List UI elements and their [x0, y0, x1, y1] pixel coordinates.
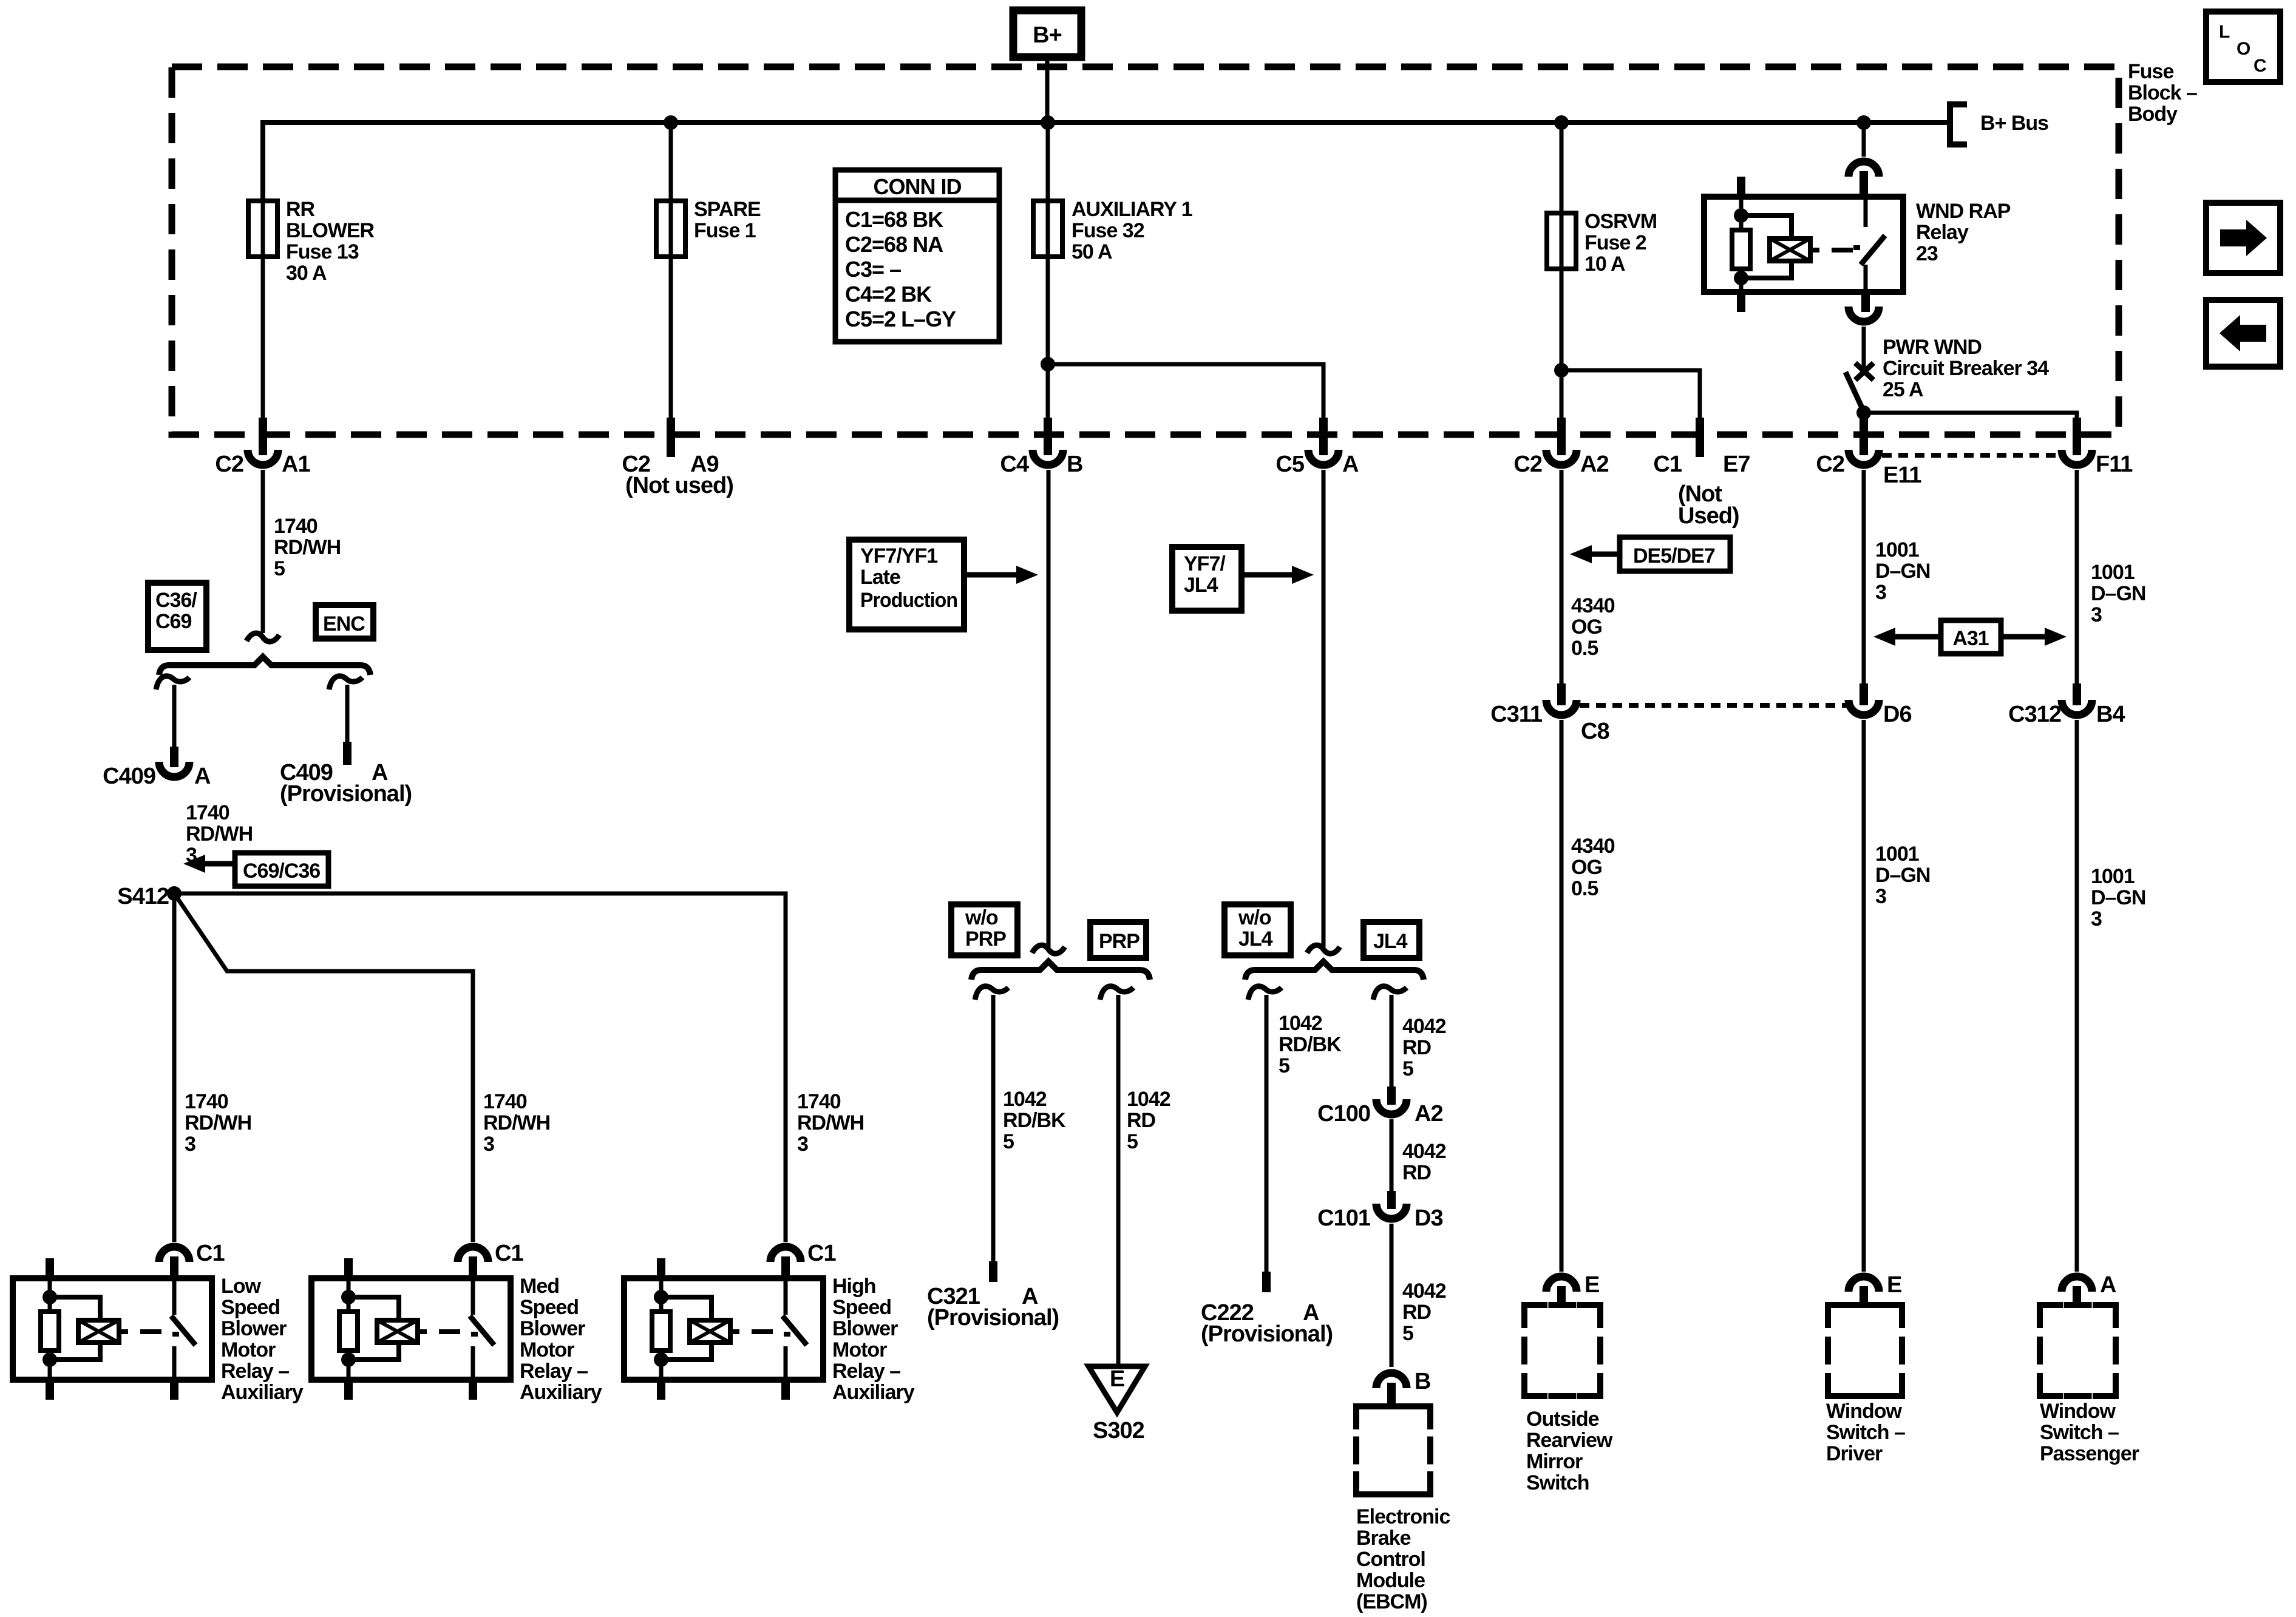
svg-text:S302: S302: [1093, 1418, 1144, 1443]
splice brace: [159, 657, 370, 675]
arrow A31 left: [1894, 634, 1941, 640]
svg-text:1042: 1042: [1127, 1088, 1170, 1111]
svg-text:Med: Med: [520, 1275, 559, 1298]
splice brace PRP: [971, 961, 1150, 980]
branch pigtail right (provisional): [329, 676, 362, 690]
svg-text:Production: Production: [860, 589, 957, 612]
node: bus junction at WND RAP relay: [1856, 115, 1871, 130]
wire end pigtail C5 branch: [1307, 945, 1340, 954]
node: bus junction at OSRVM: [1554, 115, 1569, 130]
svg-text:PRP: PRP: [1099, 930, 1140, 953]
C36/C69 option box: [148, 583, 206, 650]
svg-text:WND RAP: WND RAP: [1916, 200, 2011, 223]
svg-text:4042: 4042: [1402, 1015, 1446, 1038]
B+ Bus bracket terminal: [1950, 104, 1967, 144]
connector C2/E11 pin stub: [1860, 418, 1868, 455]
wire S412 to high relay: [174, 893, 786, 1242]
wire C312 to window switch passenger: [2075, 720, 2079, 1272]
connector C409/A cup: [159, 762, 189, 777]
svg-text:PRP: PRP: [965, 927, 1006, 951]
svg-text:C312: C312: [2008, 702, 2061, 727]
svg-text:RD/WH: RD/WH: [274, 536, 341, 559]
relay K23 input pin stub: [1860, 171, 1868, 197]
power feed B+ box: [1013, 10, 1081, 57]
connector C409/A provisional stub: [343, 742, 352, 765]
node: bus junction at B+/AUX: [1041, 115, 1055, 130]
wire C101 to EBCM: [1390, 1224, 1394, 1367]
svg-text:Control: Control: [1356, 1548, 1425, 1571]
svg-text:C4=2 BK: C4=2 BK: [845, 282, 932, 307]
wire S412 to med relay (diagonal): [174, 893, 473, 1242]
svg-text:D–GN: D–GN: [1875, 864, 1930, 887]
svg-text:Auxiliary: Auxiliary: [221, 1381, 304, 1404]
wire bus to WND RAP relay connector: [1862, 123, 1866, 157]
svg-text:C409: C409: [103, 764, 155, 789]
svg-text:C2: C2: [215, 452, 243, 477]
svg-text:1042: 1042: [1003, 1088, 1047, 1111]
svg-text:YF7/: YF7/: [1184, 552, 1226, 575]
connector F11 pin stub: [2073, 418, 2081, 455]
svg-text:Low: Low: [221, 1275, 262, 1298]
wire relay to circuit breaker: [1862, 327, 1866, 368]
connector B arc (EBCM): [1376, 1373, 1407, 1388]
svg-text:Fuse 13: Fuse 13: [286, 240, 359, 263]
ENC option box: [316, 605, 373, 639]
svg-text:A2: A2: [1415, 1101, 1443, 1127]
svg-text:C1: C1: [495, 1241, 523, 1266]
node: breaker output junction: [1856, 405, 1871, 420]
connector C4/B pin stub: [1044, 418, 1052, 455]
svg-text:RD: RD: [1402, 1036, 1432, 1059]
svg-text:Outside: Outside: [1526, 1408, 1599, 1431]
connector C2/A2 pin stub: [1557, 418, 1566, 455]
svg-text:RD/BK: RD/BK: [1003, 1109, 1066, 1132]
svg-text:D6: D6: [1883, 702, 1912, 727]
svg-text:RD: RD: [1402, 1301, 1432, 1324]
wire to C321: [991, 995, 996, 1263]
svg-text:Blower: Blower: [221, 1317, 287, 1340]
wire end pigtail: [246, 633, 279, 642]
svg-text:w/o: w/o: [965, 906, 998, 929]
svg-text:10 A: 10 A: [1584, 253, 1625, 276]
wire breaker junction to F11 drop: [1864, 413, 2077, 419]
branch pigtail left: [156, 676, 189, 690]
svg-text:Auxiliary: Auxiliary: [832, 1381, 915, 1404]
fuse F32 AUXILIARY 1 50A: [1046, 123, 1050, 201]
arrow to wire from C69/C36: [204, 861, 235, 867]
svg-text:CONN ID: CONN ID: [874, 174, 962, 199]
connector C1/E7 pin stub (not used): [1696, 418, 1704, 457]
connector C311/C8 cup: [1546, 700, 1577, 715]
svg-text:D–GN: D–GN: [2091, 886, 2145, 909]
svg-text:1740: 1740: [274, 515, 318, 538]
connector A pin stub (passenger): [2073, 1286, 2081, 1305]
connector B pin stub: [1387, 1383, 1396, 1406]
svg-text:4340: 4340: [1571, 594, 1615, 617]
svg-text:Blower: Blower: [832, 1317, 898, 1340]
svg-text:Brake: Brake: [1356, 1527, 1411, 1550]
svg-text:RD/WH: RD/WH: [797, 1111, 864, 1134]
svg-text:RD/WH: RD/WH: [186, 822, 253, 846]
connector D6 cup: [1849, 700, 1879, 715]
svg-text:E: E: [1110, 1366, 1124, 1392]
connector C2/A1 pin stub: [259, 418, 267, 455]
svg-text:Switch –: Switch –: [2040, 1421, 2119, 1444]
svg-text:Switch: Switch: [1526, 1471, 1589, 1494]
node: osrvm junction: [1554, 363, 1569, 378]
wire C2/E11 to D6: [1862, 470, 1866, 685]
svg-text:Module: Module: [1356, 1569, 1425, 1592]
svg-text:3: 3: [1875, 581, 1886, 604]
connector C1 pin stub (Med relay): [469, 1256, 477, 1278]
svg-text:L: L: [2219, 22, 2230, 42]
svg-text:25 A: 25 A: [1883, 378, 1923, 401]
branch pigtail w/o JL4: [1248, 986, 1282, 1000]
svg-text:B+ Bus: B+ Bus: [1980, 112, 2048, 135]
B+ bus wire: [263, 123, 1950, 201]
svg-text:A2: A2: [1580, 452, 1609, 477]
svg-text:3: 3: [483, 1133, 494, 1156]
svg-text:C8: C8: [1581, 719, 1609, 744]
svg-text:3: 3: [1875, 885, 1886, 908]
wire end pigtail C4 branch: [1032, 945, 1065, 954]
wire aux junction to C5 drop: [1048, 364, 1323, 419]
connector C1 arc (High relay): [770, 1247, 801, 1262]
wire branch to C409: [172, 685, 177, 748]
connector C1 arc (Med relay): [458, 1247, 488, 1262]
relay K23 input connector arc: [1849, 161, 1879, 177]
wire fuse32 down to node: [1046, 257, 1050, 364]
connector C101/D3 pin stub: [1387, 1191, 1396, 1209]
svg-text:Passenger: Passenger: [2040, 1442, 2139, 1465]
svg-text:Fuse 2: Fuse 2: [1584, 231, 1646, 254]
connector C321/A provisional stub: [989, 1261, 997, 1282]
svg-text:Motor: Motor: [520, 1338, 574, 1361]
svg-text:RD: RD: [1127, 1109, 1156, 1132]
svg-text:Relay –: Relay –: [520, 1360, 588, 1383]
wire: dotted link E11 to F11: [1882, 453, 2059, 458]
wire osrvm junction to E7 stub: [1561, 370, 1700, 419]
wire osrvm junction to C2/A2 connector: [1560, 370, 1564, 419]
connector C409/A pin stub: [170, 747, 178, 767]
svg-text:Relay –: Relay –: [832, 1360, 900, 1383]
svg-text:1001: 1001: [2091, 865, 2135, 888]
wire JL4 branch to C100: [1390, 995, 1394, 1088]
wire aux junction to C4 connector: [1046, 364, 1050, 419]
svg-text:A: A: [2100, 1272, 2116, 1298]
splice brace JL4: [1245, 961, 1424, 980]
svg-text:A31: A31: [1952, 627, 1988, 650]
svg-text:C1=68 BK: C1=68 BK: [845, 207, 943, 232]
wire C311 to OSRVM switch: [1560, 720, 1564, 1272]
svg-text:D3: D3: [1415, 1205, 1443, 1231]
connector C101/D3 cup: [1376, 1204, 1407, 1219]
YF7/JL4 tag box: [1172, 547, 1241, 611]
svg-text:1001: 1001: [1875, 538, 1919, 561]
module Outside Rearview Mirror Switch dashed box: [1524, 1305, 1600, 1396]
svg-text:1042: 1042: [1279, 1012, 1322, 1035]
svg-text:Speed: Speed: [832, 1296, 891, 1319]
connector C312/B4 cup: [2062, 700, 2092, 715]
connector C1 pin stub (High relay): [781, 1256, 790, 1278]
ground symbol S302: [1089, 1366, 1145, 1412]
svg-text:E: E: [1887, 1272, 1901, 1298]
svg-text:C3= –: C3= –: [845, 257, 901, 282]
fuse block - body dashed box: [172, 67, 2119, 435]
svg-text:4042: 4042: [1402, 1140, 1446, 1163]
arrow A31 right: [2001, 634, 2045, 640]
fuse F1 SPARE: [669, 123, 673, 201]
navigation box: right arrow: [2206, 203, 2280, 273]
svg-text:(Provisional): (Provisional): [280, 781, 412, 807]
DE5/DE7 tag box: [1620, 537, 1730, 571]
svg-text:(EBCM): (EBCM): [1356, 1590, 1427, 1613]
svg-text:RD/WH: RD/WH: [185, 1111, 251, 1134]
wire fuse13 to connector C2/A1: [261, 257, 265, 419]
svg-text:30 A: 30 A: [286, 262, 327, 285]
svg-text:JL4: JL4: [1184, 574, 1218, 597]
wire C2/A1 to splice pack: [261, 470, 265, 633]
node: bus junction at SPARE: [664, 115, 678, 130]
svg-text:C101: C101: [1317, 1205, 1371, 1231]
relay K23 WND RAP Relay 23: [1704, 197, 1903, 292]
svg-text:Motor: Motor: [221, 1338, 276, 1361]
svg-text:Body: Body: [2128, 103, 2178, 126]
svg-text:C5: C5: [1275, 452, 1304, 477]
svg-text:C2=68 NA: C2=68 NA: [845, 232, 943, 257]
svg-text:PWR WND: PWR WND: [1883, 336, 1982, 359]
wire C2/A2 to C311: [1560, 470, 1564, 685]
connector D6 pin stub: [1860, 683, 1868, 705]
svg-text:Fuse: Fuse: [2128, 60, 2173, 83]
svg-text:C2: C2: [1816, 452, 1844, 477]
svg-text:Driver: Driver: [1826, 1442, 1883, 1465]
svg-text:BLOWER: BLOWER: [286, 219, 375, 242]
YF7/YF1 Late Production tag box: [849, 540, 964, 629]
svg-text:F11: F11: [2096, 452, 2133, 477]
svg-text:1001: 1001: [1875, 842, 1919, 866]
svg-text:0.5: 0.5: [1571, 877, 1598, 900]
node: aux junction: [1041, 357, 1055, 371]
svg-text:E7: E7: [1723, 452, 1750, 477]
svg-text:OG: OG: [1571, 856, 1602, 879]
svg-text:50 A: 50 A: [1072, 240, 1112, 263]
svg-text:RD: RD: [1402, 1161, 1432, 1184]
w/o PRP option box: [951, 904, 1017, 955]
svg-text:A: A: [194, 764, 211, 789]
connector C222/A provisional stub: [1262, 1272, 1271, 1292]
wire F11 to C312: [2075, 470, 2079, 685]
svg-text:3: 3: [185, 1133, 195, 1156]
svg-text:5: 5: [1003, 1130, 1014, 1153]
branch pigtail w/o PRP: [975, 986, 1008, 1000]
svg-text:Fuse 1: Fuse 1: [694, 219, 756, 242]
relay K1 Low Speed Blower Motor Relay - Auxiliary: [13, 1278, 212, 1380]
JL4 option box: [1364, 922, 1419, 958]
fuse F2 OSRVM 10A: [1560, 123, 1564, 213]
svg-text:C1: C1: [196, 1241, 225, 1266]
svg-text:5: 5: [1402, 1057, 1413, 1080]
svg-text:C36/: C36/: [155, 589, 197, 612]
svg-text:SPARE: SPARE: [694, 198, 761, 221]
svg-text:S412: S412: [117, 884, 169, 909]
svg-text:0.5: 0.5: [1571, 637, 1598, 660]
arrow DE5/DE7 to wire: [1591, 552, 1620, 557]
connector A arc (window switch passenger): [2062, 1276, 2092, 1292]
connector C1 pin stub (Low relay): [170, 1256, 178, 1278]
wire fuse2 down to node: [1560, 269, 1564, 370]
module Window Switch - Driver dashed box: [1828, 1305, 1902, 1396]
svg-text:JL4: JL4: [1373, 930, 1408, 953]
svg-text:JL4: JL4: [1238, 927, 1273, 951]
svg-text:Circuit Breaker 34: Circuit Breaker 34: [1883, 357, 2049, 380]
module Window Switch - Passenger dashed box: [2040, 1305, 2116, 1396]
connector C100/A2 cup: [1376, 1099, 1407, 1114]
svg-text:1001: 1001: [2091, 561, 2135, 584]
svg-text:C69/C36: C69/C36: [243, 859, 320, 883]
svg-text:D–GN: D–GN: [2091, 582, 2145, 605]
node S412 splice: [167, 886, 182, 901]
svg-text:4340: 4340: [1571, 835, 1615, 858]
CONN ID table: [835, 170, 999, 342]
relay K23 output connector cup: [1849, 307, 1879, 322]
svg-text:Relay: Relay: [1916, 221, 1969, 244]
svg-text:4042: 4042: [1402, 1280, 1446, 1303]
navigation box: left arrow: [2206, 300, 2280, 367]
w/o JL4 option box: [1224, 904, 1291, 955]
svg-text:Block –: Block –: [2128, 81, 2197, 104]
LOC reference box: [2206, 12, 2280, 82]
svg-text:w/o: w/o: [1238, 906, 1271, 929]
connector C2/A2 cup: [1546, 450, 1577, 465]
wire to C222: [1265, 995, 1269, 1273]
svg-text:Blower: Blower: [520, 1317, 585, 1340]
svg-text:OSRVM: OSRVM: [1584, 210, 1657, 233]
fuse F13 RR BLOWER 30A: [261, 201, 265, 257]
svg-text:23: 23: [1916, 242, 1938, 265]
svg-text:E: E: [1584, 1272, 1599, 1298]
svg-text:YF7/YF1: YF7/YF1: [860, 544, 937, 568]
connector C5/A pin stub: [1319, 418, 1328, 455]
svg-text:E11: E11: [1883, 463, 1921, 488]
circuit breaker CB34 blade: [1846, 372, 1864, 412]
svg-text:3: 3: [2091, 603, 2102, 626]
connector C312/B4 pin stub: [2073, 683, 2081, 705]
svg-text:A1: A1: [282, 452, 310, 477]
connector F11 cup: [2062, 450, 2092, 465]
circuit breaker CB34 contact cross: [1855, 363, 1873, 380]
svg-text:C2: C2: [1513, 452, 1542, 477]
A31 tag box: [1941, 620, 2001, 654]
svg-text:B: B: [1415, 1369, 1430, 1394]
svg-text:(Provisional): (Provisional): [1201, 1321, 1333, 1347]
connector C1 arc (Low relay): [159, 1247, 189, 1262]
relay K2 Med Speed Blower Motor Relay - Auxiliary: [311, 1278, 511, 1380]
svg-text:Late: Late: [860, 566, 900, 589]
connector C100/A2 pin stub: [1387, 1086, 1396, 1105]
C69/C36 reference box: [235, 853, 328, 886]
svg-text:High: High: [832, 1275, 876, 1298]
svg-text:A: A: [1342, 452, 1359, 477]
wire: dotted link C311 to D6: [1580, 703, 1847, 708]
wire fuse1 to connector C2/A9: [669, 257, 673, 419]
svg-text:C1: C1: [807, 1241, 836, 1266]
svg-text:RD/WH: RD/WH: [483, 1111, 550, 1134]
svg-text:3: 3: [2091, 907, 2102, 931]
svg-text:(Not used): (Not used): [625, 473, 733, 498]
wire C4/B down: [1047, 470, 1051, 947]
svg-text:OG: OG: [1571, 615, 1602, 639]
svg-text:1740: 1740: [186, 801, 229, 824]
svg-text:Speed: Speed: [221, 1296, 280, 1319]
connector C311/C8 pin stub: [1557, 683, 1566, 705]
connector C5/A cup: [1308, 450, 1339, 465]
svg-text:Window: Window: [2040, 1400, 2116, 1423]
svg-text:C311: C311: [1490, 702, 1543, 727]
svg-text:3: 3: [797, 1133, 808, 1156]
wire to ground S302: [1116, 995, 1121, 1366]
svg-text:C: C: [2254, 56, 2266, 76]
wire breaker junction to E11 connector: [1862, 413, 1866, 419]
svg-text:1740: 1740: [185, 1090, 228, 1113]
arrow YF7/JL4 to wire: [1241, 572, 1292, 578]
arrow YF7/YF1 to wire: [964, 572, 1016, 578]
relay K3 High Speed Blower Motor Relay - Auxiliary: [624, 1278, 823, 1380]
svg-text:Auxiliary: Auxiliary: [520, 1381, 602, 1404]
svg-text:AUXILIARY 1: AUXILIARY 1: [1072, 198, 1192, 221]
svg-text:C69: C69: [155, 610, 191, 633]
svg-text:Switch –: Switch –: [1826, 1421, 1905, 1444]
connector C2/A9 pin stub (not used): [667, 418, 675, 457]
svg-text:O: O: [2237, 39, 2250, 59]
branch pigtail PRP: [1100, 986, 1133, 1000]
svg-text:Electronic: Electronic: [1356, 1505, 1450, 1528]
wire C100 to C101: [1390, 1119, 1394, 1192]
svg-text:5: 5: [1279, 1054, 1289, 1077]
svg-text:5: 5: [274, 557, 285, 580]
wire S412 to low relay: [172, 893, 177, 1242]
branch pigtail JL4: [1373, 986, 1407, 1000]
svg-text:5: 5: [1402, 1322, 1413, 1345]
svg-text:Window: Window: [1826, 1400, 1903, 1423]
svg-text:DE5/DE7: DE5/DE7: [1633, 544, 1715, 568]
svg-text:1740: 1740: [483, 1090, 527, 1113]
svg-text:Relay –: Relay –: [221, 1360, 289, 1383]
svg-text:C5=2 L–GY: C5=2 L–GY: [845, 307, 956, 331]
svg-text:D–GN: D–GN: [1875, 560, 1930, 583]
svg-text:RD/BK: RD/BK: [1279, 1033, 1342, 1056]
wire branch provisional: [345, 685, 350, 743]
module EBCM dashed box: [1356, 1406, 1430, 1494]
connector E arc (window switch driver): [1849, 1276, 1879, 1292]
svg-text:Motor: Motor: [832, 1338, 887, 1361]
svg-text:B: B: [1067, 452, 1082, 477]
svg-text:Speed: Speed: [520, 1296, 579, 1319]
svg-text:Mirror: Mirror: [1526, 1450, 1583, 1473]
connector E arc (OSRVM switch): [1546, 1276, 1577, 1292]
connector C2/E11 cup: [1849, 450, 1879, 465]
wire B+ to bus: [1045, 57, 1050, 123]
svg-text:RR: RR: [286, 198, 315, 221]
wire D6 to window switch driver: [1862, 720, 1866, 1272]
connector C2/A1 cup: [248, 450, 278, 465]
svg-text:(Provisional): (Provisional): [927, 1305, 1059, 1331]
svg-text:1740: 1740: [797, 1090, 841, 1113]
PRP option box: [1090, 922, 1146, 958]
svg-text:5: 5: [1127, 1130, 1138, 1153]
wire C5/A down: [1322, 470, 1326, 947]
svg-text:C100: C100: [1317, 1101, 1370, 1127]
